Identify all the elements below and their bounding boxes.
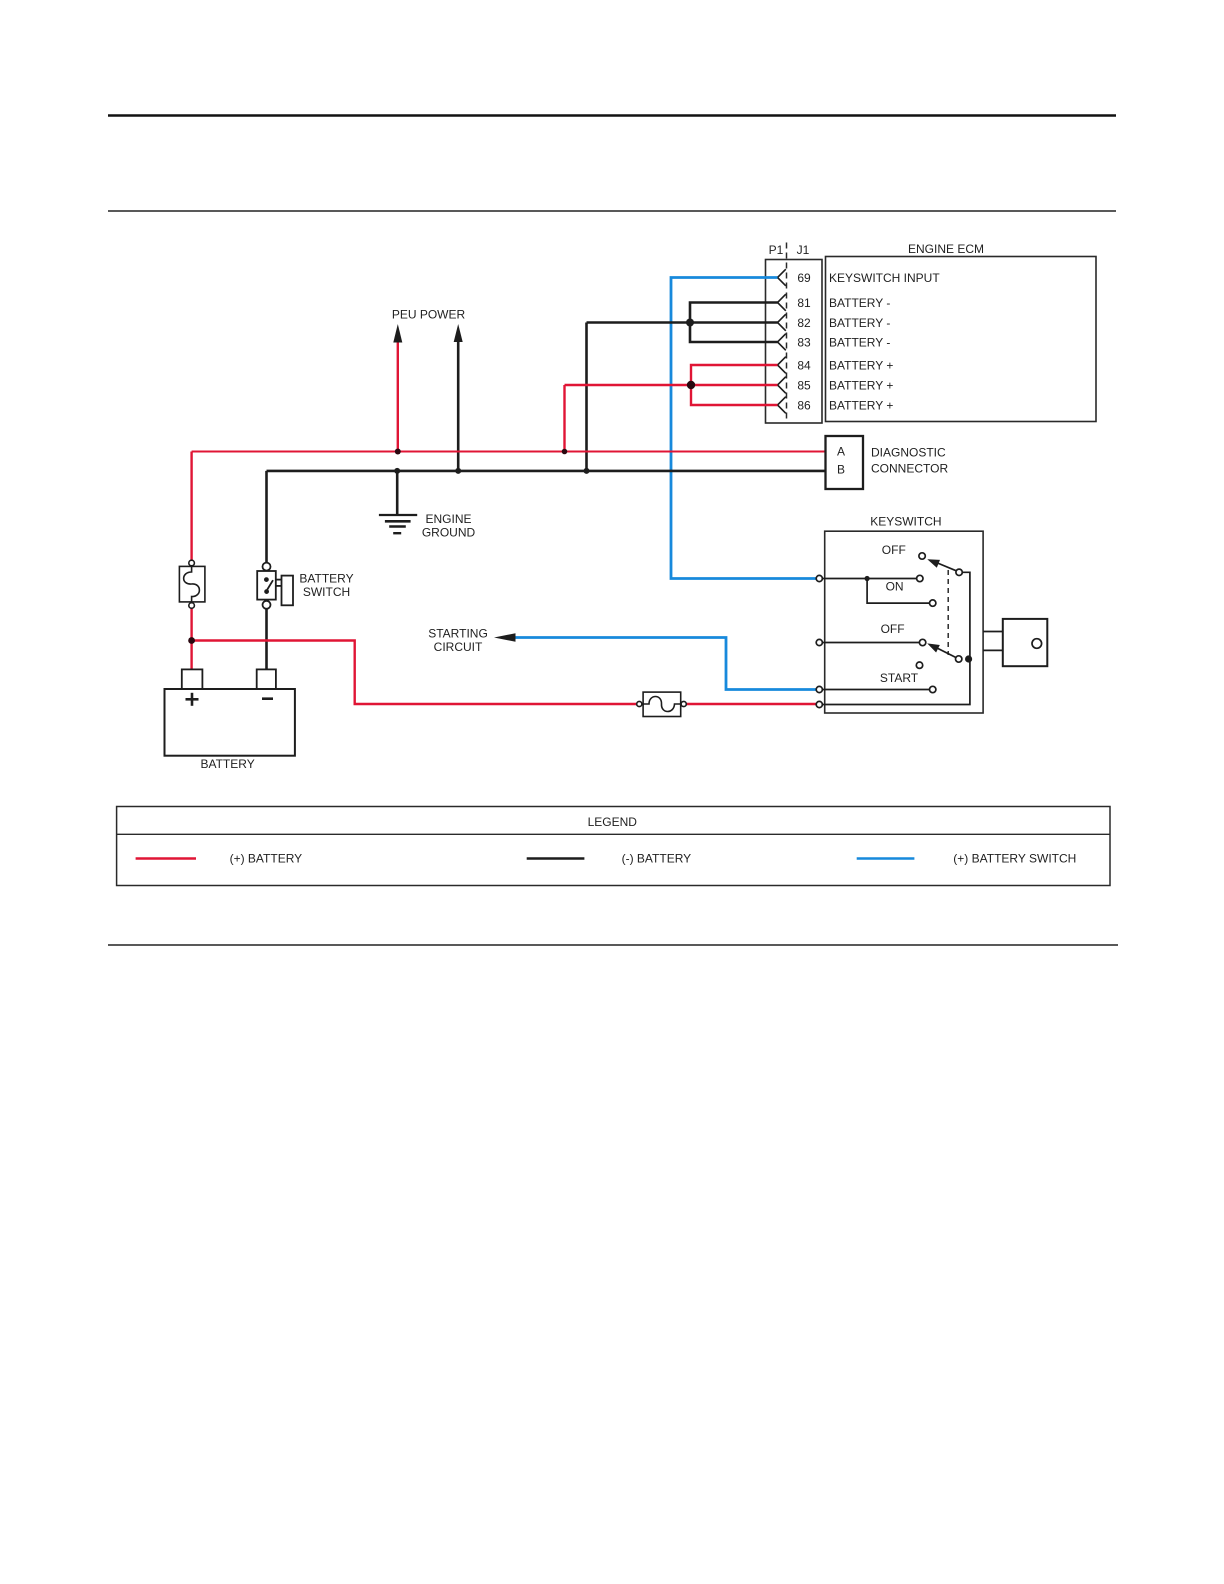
svg-text:BATTERY -: BATTERY - [829, 296, 890, 310]
svg-text:(+) BATTERY: (+) BATTERY [230, 852, 303, 866]
svg-text:BATTERY +: BATTERY + [829, 359, 893, 373]
svg-text:DIAGNOSTIC: DIAGNOSTIC [871, 446, 946, 460]
svg-text:69: 69 [797, 271, 811, 285]
svg-text:ENGINE ECM: ENGINE ECM [908, 242, 984, 256]
svg-text:ON: ON [886, 580, 904, 594]
svg-text:BATTERY: BATTERY [200, 757, 254, 771]
svg-text:81: 81 [797, 296, 811, 310]
svg-text:J1: J1 [797, 243, 810, 257]
svg-text:83: 83 [797, 336, 811, 350]
svg-text:(-) BATTERY: (-) BATTERY [622, 852, 692, 866]
svg-text:PEU POWER: PEU POWER [392, 308, 466, 322]
svg-text:84: 84 [797, 359, 811, 373]
svg-text:A: A [837, 445, 845, 459]
svg-text:P1: P1 [769, 243, 784, 257]
svg-text:BATTERY -: BATTERY - [829, 316, 890, 330]
svg-text:(+) BATTERY SWITCH: (+) BATTERY SWITCH [953, 852, 1076, 866]
svg-text:ENGINE: ENGINE [425, 512, 471, 526]
svg-text:OFF: OFF [881, 622, 905, 636]
svg-text:BATTERY +: BATTERY + [829, 379, 893, 393]
svg-text:BATTERY: BATTERY [299, 572, 353, 586]
svg-text:START: START [880, 671, 919, 685]
svg-text:86: 86 [797, 399, 811, 413]
svg-text:KEYSWITCH INPUT: KEYSWITCH INPUT [829, 271, 940, 285]
svg-text:STARTING: STARTING [428, 627, 488, 641]
svg-text:B: B [837, 463, 845, 477]
svg-text:CIRCUIT: CIRCUIT [434, 640, 483, 654]
svg-text:KEYSWITCH: KEYSWITCH [870, 515, 941, 529]
svg-text:SWITCH: SWITCH [303, 585, 350, 599]
svg-text:CONNECTOR: CONNECTOR [871, 462, 948, 476]
svg-text:BATTERY +: BATTERY + [829, 399, 893, 413]
svg-text:BATTERY -: BATTERY - [829, 336, 890, 350]
svg-text:85: 85 [797, 379, 811, 393]
svg-text:GROUND: GROUND [422, 526, 476, 540]
svg-text:OFF: OFF [882, 543, 906, 557]
svg-text:LEGEND: LEGEND [588, 815, 638, 829]
svg-text:82: 82 [797, 316, 811, 330]
